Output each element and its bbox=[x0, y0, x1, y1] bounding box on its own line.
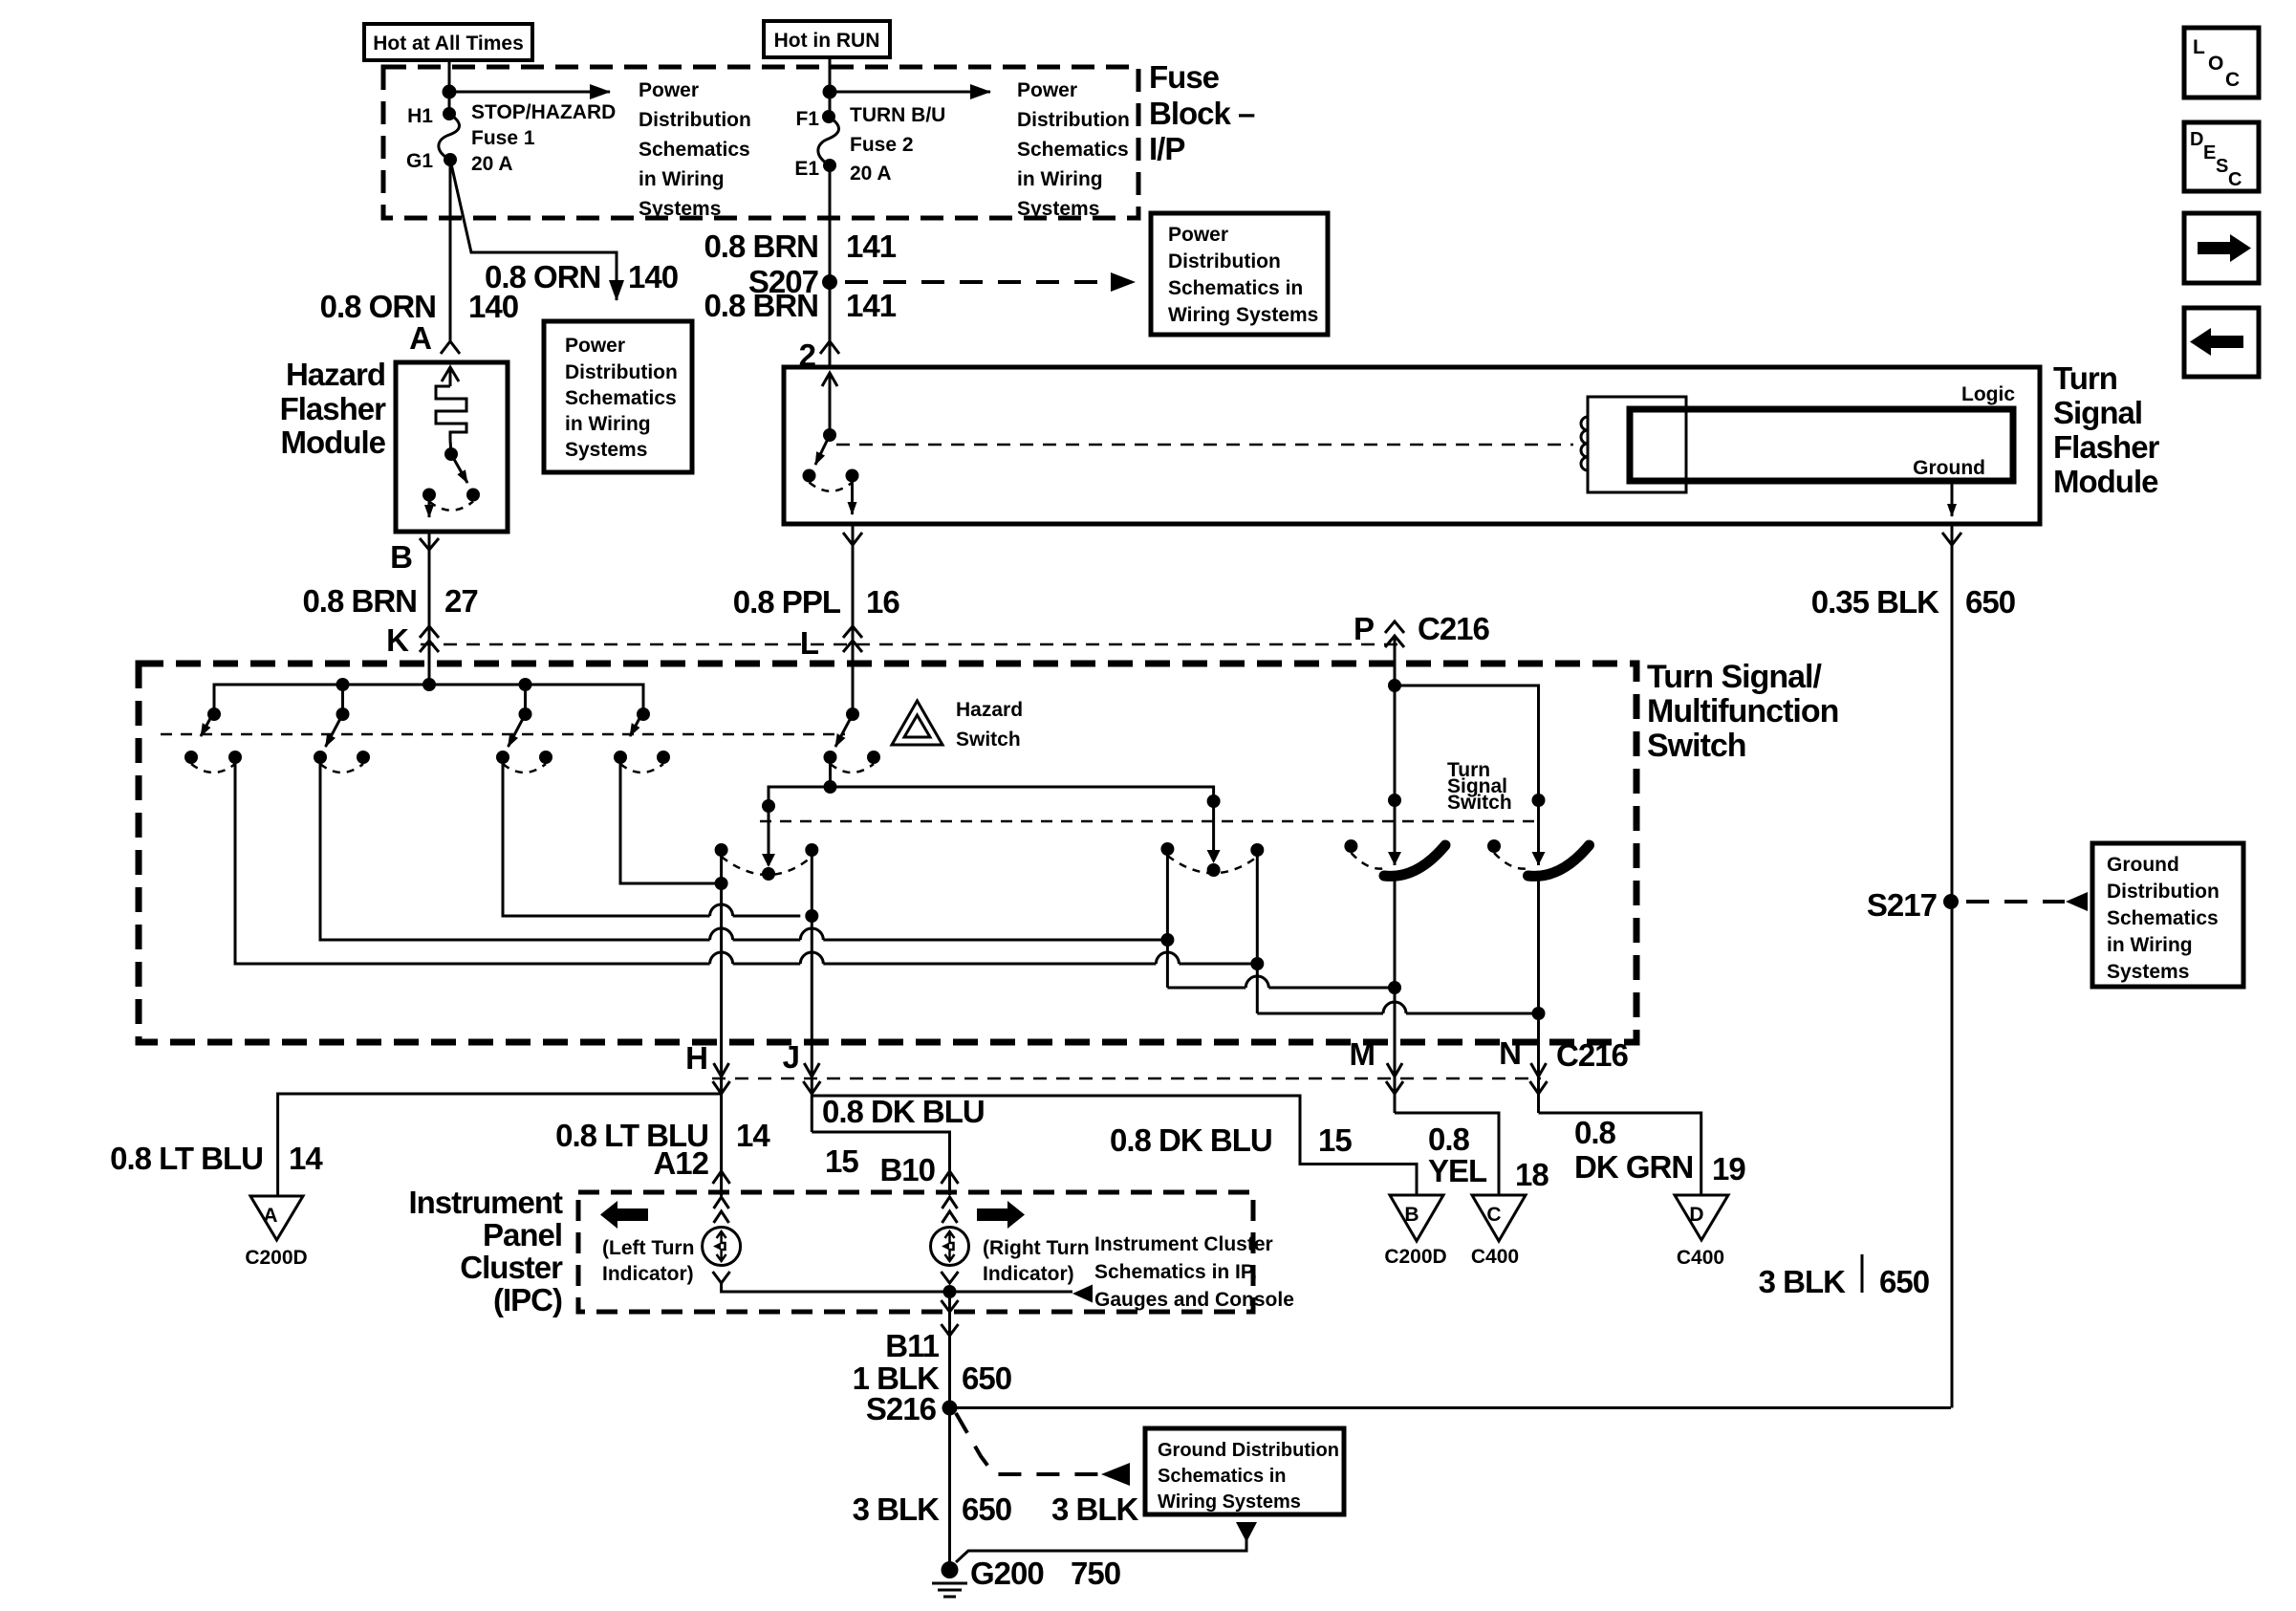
reference arrow to instrument cluster schematics bbox=[1072, 1285, 1093, 1303]
terminal F1 bbox=[822, 110, 835, 123]
M pole contact left bbox=[1344, 839, 1357, 853]
svg-text:F1: F1 bbox=[795, 108, 819, 130]
svg-text:J: J bbox=[783, 1039, 799, 1075]
svg-text:0.8 BRN: 0.8 BRN bbox=[704, 229, 818, 264]
svg-text:3 BLK: 3 BLK bbox=[853, 1491, 941, 1527]
wire label 0.8 ORN 140 (to module A) bbox=[320, 289, 518, 324]
wire J to B10 bbox=[812, 1132, 949, 1195]
TS common pole contact left bbox=[1160, 842, 1174, 856]
svg-text:Panel: Panel bbox=[483, 1217, 562, 1252]
wire label 0.8 ORN 140 (branch) bbox=[485, 259, 678, 294]
svg-text:Distribution: Distribution bbox=[565, 361, 678, 383]
svg-text:D: D bbox=[2190, 129, 2203, 150]
caret below right bulb bbox=[942, 1272, 959, 1283]
note Power Distribution Schematics in Wiring Systems (fuse2) bbox=[1017, 79, 1130, 220]
svg-text:Fuse 1: Fuse 1 bbox=[471, 127, 535, 149]
pole1 contact right bbox=[228, 751, 242, 764]
TS common pole terminal bbox=[1207, 795, 1221, 808]
svg-text:0.8 DK BLU: 0.8 DK BLU bbox=[822, 1094, 985, 1129]
svg-text:Fuse 2: Fuse 2 bbox=[850, 134, 914, 156]
feed pole contact right bbox=[867, 751, 880, 764]
svg-text:Ground Distribution: Ground Distribution bbox=[1158, 1440, 1339, 1461]
connector line C216 bottom dashed bbox=[712, 1078, 1541, 1080]
connector triangle D bbox=[1675, 1195, 1728, 1240]
feed pole contact left bbox=[824, 751, 837, 764]
svg-text:Schematics in: Schematics in bbox=[1168, 277, 1303, 299]
TS flasher logic block bbox=[1630, 409, 2013, 481]
svg-text:Flasher: Flasher bbox=[280, 391, 387, 426]
pole4 contact right bbox=[657, 751, 670, 764]
svg-text:0.8 PPL: 0.8 PPL bbox=[733, 584, 841, 620]
wire label 0.8 BRN 27 bbox=[302, 583, 477, 619]
svg-text:A: A bbox=[263, 1205, 277, 1227]
connector M double caret bbox=[1386, 1063, 1403, 1094]
svg-text:C216: C216 bbox=[1556, 1037, 1629, 1073]
junction pole4-to-H bbox=[715, 877, 728, 890]
svg-text:650: 650 bbox=[962, 1361, 1011, 1396]
pole1 contact left bbox=[184, 751, 198, 764]
svg-text:Gauges and Console: Gauges and Console bbox=[1094, 1289, 1294, 1311]
wire K into switch bbox=[428, 650, 431, 685]
svg-text:C400: C400 bbox=[1677, 1247, 1724, 1269]
wire feed-pole left contact down bbox=[829, 757, 832, 787]
svg-text:Systems: Systems bbox=[2107, 961, 2189, 983]
junction bulbs bus bbox=[943, 1285, 957, 1298]
svg-text:B11: B11 bbox=[885, 1328, 939, 1363]
label (Right Turn Indicator) bbox=[983, 1237, 1090, 1285]
hazard switch warning triangle icon bbox=[892, 701, 942, 745]
wire fuse2 to S207 bbox=[829, 165, 832, 367]
svg-text:S216: S216 bbox=[866, 1391, 937, 1426]
connector N double caret bbox=[1530, 1063, 1548, 1094]
wire N to connector D bbox=[1539, 1113, 1701, 1195]
icon box LOC bbox=[2184, 28, 2259, 98]
svg-text:O: O bbox=[2208, 53, 2223, 75]
svg-text:Cluster: Cluster bbox=[460, 1250, 563, 1285]
svg-text:0.8 DK BLU: 0.8 DK BLU bbox=[1110, 1122, 1272, 1158]
svg-text:Hazard: Hazard bbox=[286, 357, 385, 392]
connector triangle C bbox=[1472, 1195, 1526, 1241]
note box Power Distribution Schematics in Wiring Systems (right of S207) bbox=[1151, 213, 1328, 335]
svg-text:Wiring Systems: Wiring Systems bbox=[1158, 1491, 1301, 1513]
connector caret A bbox=[441, 341, 460, 354]
label Hazard Switch bbox=[956, 699, 1023, 751]
hazard flasher contact right bbox=[466, 489, 480, 502]
wire branch 0.8 ORN 140 to power dist note bbox=[450, 160, 617, 300]
wire TS flasher L output bbox=[852, 524, 855, 711]
label Turn Signal Flasher Module bbox=[2053, 360, 2160, 499]
pole4 contact arc bbox=[620, 764, 663, 773]
center pole contact left (H) bbox=[715, 843, 728, 857]
TS flasher coil frame bbox=[1588, 397, 1686, 492]
wire from Hot at All Times to fuse 1 bbox=[448, 60, 451, 114]
svg-text:C400: C400 bbox=[1471, 1246, 1519, 1268]
svg-text:C: C bbox=[2225, 69, 2240, 91]
svg-text:Module: Module bbox=[281, 425, 386, 460]
connector line C216 top dashed bbox=[421, 643, 1403, 646]
svg-text:15: 15 bbox=[825, 1143, 858, 1179]
wire S216 to right ground wire bbox=[950, 1406, 1952, 1409]
wire from Hot in RUN to fuse 2 bbox=[829, 57, 832, 117]
svg-text:C200D: C200D bbox=[245, 1247, 307, 1269]
connector P double caret bbox=[1385, 621, 1404, 647]
svg-text:DK GRN: DK GRN bbox=[1574, 1149, 1693, 1185]
N pole arm arrowhead bbox=[1532, 852, 1546, 865]
wire 0.8 LT BLU to connector A bbox=[278, 1094, 722, 1196]
svg-text:in Wiring: in Wiring bbox=[639, 168, 725, 190]
wire label 3 BLK 650 (right) bbox=[1759, 1254, 1929, 1299]
svg-text:Schematics in: Schematics in bbox=[1158, 1466, 1287, 1487]
wire label 0.8 YEL 18 bbox=[1428, 1121, 1549, 1192]
terminal G1 bbox=[444, 153, 457, 166]
svg-text:M: M bbox=[1350, 1036, 1375, 1072]
junction feed-to-center-bar bbox=[824, 780, 837, 794]
svg-text:Distribution: Distribution bbox=[2107, 881, 2220, 903]
connector carets into right bulb bbox=[942, 1197, 958, 1223]
hazard switch pole4 pivot bbox=[637, 708, 650, 721]
wire pole1 right contact to TS-right-vertical with hops bbox=[235, 757, 1257, 964]
pole2 contact left bbox=[314, 751, 327, 764]
label Turn Signal/ Multifunction Switch bbox=[1647, 659, 1838, 764]
svg-text:in Wiring: in Wiring bbox=[565, 413, 651, 435]
wire TS right vertical bbox=[1256, 850, 1259, 1013]
TS flasher ground output arrow bbox=[1951, 481, 1954, 516]
svg-text:C200D: C200D bbox=[1384, 1246, 1446, 1268]
svg-text:Distribution: Distribution bbox=[1017, 109, 1130, 131]
svg-text:E1: E1 bbox=[794, 158, 819, 180]
wire label 1 BLK 650 bbox=[853, 1361, 1011, 1396]
svg-text:Multifunction: Multifunction bbox=[1647, 693, 1838, 729]
node at fuse2 feed bbox=[823, 85, 837, 99]
TS common pole moving contact bbox=[1207, 863, 1221, 877]
pole3 contact left bbox=[496, 751, 509, 764]
junction bus-K bbox=[422, 678, 436, 691]
arrow to Power Distribution Schematics (right) bbox=[830, 91, 990, 94]
N pole thick contact swoosh bbox=[1528, 845, 1590, 876]
hazard switch pole3 pivot bbox=[519, 708, 532, 721]
feed pole contact arc bbox=[831, 764, 875, 773]
svg-text:A12: A12 bbox=[653, 1145, 708, 1181]
right turn arrow icon bbox=[977, 1201, 1025, 1229]
connector H double caret bbox=[713, 1063, 730, 1094]
pole3 arm arrow bbox=[509, 714, 526, 747]
wire TS left vertical bbox=[1166, 849, 1169, 988]
svg-text:H: H bbox=[685, 1040, 707, 1076]
pole4 contact left bbox=[614, 751, 627, 764]
svg-text:I/P: I/P bbox=[1149, 131, 1184, 166]
icon box DESC bbox=[2184, 122, 2259, 191]
svg-text:27: 27 bbox=[444, 583, 478, 619]
svg-text:Switch: Switch bbox=[1447, 792, 1512, 814]
junction pole3-to-J bbox=[805, 909, 818, 923]
wire M to connector C bbox=[1395, 1113, 1499, 1195]
svg-text:G1: G1 bbox=[406, 150, 433, 172]
left turn indicator bulb bbox=[703, 1228, 741, 1266]
svg-text:0.8 ORN: 0.8 ORN bbox=[320, 289, 436, 324]
svg-text:0.8: 0.8 bbox=[1574, 1115, 1616, 1150]
wire pole3 stub bbox=[524, 685, 527, 714]
TS flasher switch arm arrow bbox=[815, 435, 830, 465]
junction bus-pole3 bbox=[519, 678, 532, 691]
wire TS left vertical to M with hop bbox=[1167, 976, 1395, 988]
dashed reference arrow from S207 bbox=[845, 272, 1136, 292]
M pole arm arrowhead bbox=[1388, 852, 1401, 865]
svg-text:STOP/HAZARD: STOP/HAZARD bbox=[471, 101, 616, 123]
svg-text:Hazard: Hazard bbox=[956, 699, 1023, 721]
junction L3 to right vertical bbox=[1250, 957, 1264, 970]
svg-text:Wiring Systems: Wiring Systems bbox=[1168, 304, 1318, 326]
wire H vertical bbox=[720, 850, 723, 1196]
note box Ground Distribution Schematics (right) bbox=[2092, 843, 2243, 987]
svg-text:Instrument Cluster: Instrument Cluster bbox=[1094, 1233, 1273, 1255]
wire center distribution bar bbox=[769, 787, 1214, 865]
connector caret B bbox=[420, 538, 439, 550]
connector caret pin 2 bbox=[820, 341, 839, 354]
label Fuse Block - I/P bbox=[1149, 59, 1255, 166]
wire element to pivot bbox=[450, 440, 451, 454]
label box Hot at All Times bbox=[364, 24, 532, 60]
svg-text:Power: Power bbox=[1168, 224, 1228, 246]
pole4 arm arrow bbox=[630, 711, 643, 736]
svg-text:(IPC): (IPC) bbox=[493, 1282, 562, 1317]
svg-text:140: 140 bbox=[628, 259, 678, 294]
TS flasher relay coil bbox=[1581, 417, 1588, 470]
center pole contact right (J) bbox=[805, 843, 818, 857]
svg-text:Schematics in IP,: Schematics in IP, bbox=[1094, 1261, 1257, 1283]
TS flasher switch pivot bbox=[823, 428, 836, 442]
svg-text:Schematics: Schematics bbox=[565, 387, 677, 409]
value label TURN B/U Fuse 2 20 A bbox=[850, 104, 945, 185]
center pole arm arrowhead bbox=[762, 854, 775, 867]
svg-text:14: 14 bbox=[736, 1118, 770, 1153]
connector caret A12 bbox=[713, 1171, 730, 1184]
pole2 arm arrow bbox=[326, 714, 343, 747]
svg-text:Power: Power bbox=[1017, 79, 1077, 101]
svg-text:Power: Power bbox=[565, 335, 625, 357]
M pole thick contact swoosh bbox=[1384, 845, 1445, 876]
svg-text:YEL: YEL bbox=[1428, 1153, 1487, 1188]
svg-text:650: 650 bbox=[1879, 1264, 1929, 1299]
pole1 contact arc bbox=[191, 764, 235, 773]
wire M below swoosh bbox=[1394, 880, 1397, 1113]
TS flasher contact left bbox=[803, 469, 816, 483]
wire label 0.8 LT BLU 14 (center) bbox=[555, 1118, 770, 1153]
svg-text:Schematics: Schematics bbox=[2107, 907, 2219, 929]
svg-text:C216: C216 bbox=[1418, 611, 1490, 646]
svg-text:B: B bbox=[390, 539, 412, 575]
turn signal / multifunction switch dashed box bbox=[139, 664, 1636, 1042]
left turn arrow icon bbox=[600, 1201, 648, 1229]
wire S216 to G200 bbox=[948, 1408, 951, 1571]
TS flasher output arrow bbox=[851, 476, 854, 515]
svg-text:16: 16 bbox=[866, 584, 899, 620]
wire label 0.8 DK BLU 15 (right) bbox=[1110, 1122, 1352, 1158]
svg-text:Schematics: Schematics bbox=[1017, 139, 1129, 161]
wire pole2 stub bbox=[341, 685, 344, 714]
svg-text:0.8: 0.8 bbox=[1428, 1121, 1470, 1157]
M pole terminal bbox=[1388, 794, 1401, 807]
svg-text:S217: S217 bbox=[1867, 887, 1937, 923]
N pole contact left bbox=[1487, 839, 1501, 853]
svg-text:141: 141 bbox=[846, 288, 897, 323]
svg-text:Systems: Systems bbox=[1017, 198, 1099, 220]
fuse F1 STOP/HAZARD element bbox=[439, 114, 460, 160]
hazard switch bus wire bbox=[214, 685, 643, 714]
svg-text:Fuse: Fuse bbox=[1149, 59, 1220, 95]
splice S216 bbox=[942, 1401, 958, 1416]
connector caret B11 bbox=[942, 1324, 959, 1336]
hazard flasher module box bbox=[396, 362, 508, 532]
icon box left-arrow bbox=[2184, 308, 2259, 377]
junction L4 to M wire bbox=[1388, 981, 1401, 994]
connector caret ground out bbox=[1942, 533, 1961, 545]
svg-text:Ground: Ground bbox=[1913, 457, 1985, 479]
turn signal actuator dashed link bbox=[760, 820, 1539, 823]
svg-text:Systems: Systems bbox=[565, 439, 647, 461]
turn signal flasher module box bbox=[784, 367, 2040, 524]
fuse block I/P dashed box bbox=[383, 67, 1138, 218]
svg-text:140: 140 bbox=[468, 289, 518, 324]
svg-text:Turn Signal/: Turn Signal/ bbox=[1647, 659, 1822, 695]
pole2 contact arc bbox=[320, 764, 363, 773]
right turn indicator bulb bbox=[931, 1228, 969, 1266]
TS common pole contact arc bbox=[1167, 856, 1257, 873]
svg-text:Instrument: Instrument bbox=[408, 1185, 563, 1220]
svg-text:L: L bbox=[800, 625, 819, 661]
TS flasher internal input arrow bbox=[822, 373, 837, 435]
hazard switch feed pole pivot bbox=[846, 708, 859, 721]
svg-text:B: B bbox=[1404, 1204, 1419, 1226]
hazard switch actuator dashed link bbox=[161, 733, 845, 736]
connector J double caret bbox=[803, 1063, 820, 1094]
hazard flasher contact arc bbox=[429, 502, 473, 511]
svg-text:0.35 BLK: 0.35 BLK bbox=[1811, 584, 1939, 620]
svg-text:K: K bbox=[386, 622, 409, 658]
hazard flasher switch arm arrow bbox=[451, 454, 467, 483]
svg-text:Schematics: Schematics bbox=[639, 139, 750, 161]
fuse F2 TURN B/U element bbox=[818, 117, 839, 165]
svg-text:Turn: Turn bbox=[2053, 360, 2117, 396]
label Turn Signal Switch bbox=[1447, 759, 1512, 814]
svg-text:G200: G200 bbox=[970, 1556, 1044, 1591]
svg-text:0.8 LT BLU: 0.8 LT BLU bbox=[110, 1141, 263, 1176]
terminal H1 bbox=[443, 107, 456, 120]
wire P to N pole bbox=[1395, 686, 1539, 865]
svg-text:TURN B/U: TURN B/U bbox=[850, 104, 945, 126]
svg-text:20 A: 20 A bbox=[850, 163, 892, 185]
wire J vertical bbox=[811, 850, 813, 1132]
connector K double caret bbox=[420, 626, 439, 652]
wire TS right vertical to N with hop bbox=[1257, 1002, 1538, 1013]
svg-text:Distribution: Distribution bbox=[639, 109, 751, 131]
svg-text:C: C bbox=[2228, 169, 2242, 190]
splice S217 bbox=[1943, 894, 1959, 909]
wire label 0.8 DK GRN 19 bbox=[1574, 1115, 1745, 1186]
label Hazard Flasher Module bbox=[280, 357, 387, 460]
TS common pole arm arrowhead bbox=[1207, 850, 1221, 863]
connector carets into left bulb bbox=[714, 1197, 729, 1223]
svg-text:Flasher: Flasher bbox=[2053, 429, 2160, 465]
ground G200 bbox=[932, 1561, 967, 1597]
svg-text:18: 18 bbox=[1515, 1157, 1549, 1192]
svg-text:Logic: Logic bbox=[1961, 383, 2015, 405]
svg-text:Signal: Signal bbox=[2053, 395, 2142, 430]
center pole terminal bbox=[762, 799, 775, 813]
wire B11 out of IPC bbox=[948, 1292, 951, 1408]
dashed reference from S216 bbox=[956, 1413, 1130, 1486]
svg-text:0.8 BRN: 0.8 BRN bbox=[704, 288, 818, 323]
M pole contact arc bbox=[1351, 853, 1386, 869]
svg-text:Power: Power bbox=[639, 79, 699, 101]
caret B11 at IPC edge bbox=[942, 1300, 959, 1312]
svg-text:3 BLK: 3 BLK bbox=[1759, 1264, 1847, 1299]
svg-text:Switch: Switch bbox=[956, 729, 1021, 751]
svg-text:0.8 BRN: 0.8 BRN bbox=[302, 583, 417, 619]
connector triangle B bbox=[1390, 1195, 1443, 1241]
center pole moving contact bbox=[762, 867, 775, 881]
junction L2 to left vertical bbox=[1160, 933, 1174, 947]
center pole contact arc bbox=[722, 857, 812, 875]
svg-text:C: C bbox=[1486, 1204, 1501, 1226]
svg-text:15: 15 bbox=[1318, 1122, 1352, 1158]
TS flasher contact arc bbox=[810, 483, 853, 491]
wire N below swoosh bbox=[1537, 880, 1540, 1113]
wire label 0.8 PPL 16 bbox=[733, 584, 900, 620]
svg-text:S: S bbox=[2216, 156, 2228, 177]
svg-text:L: L bbox=[2193, 36, 2205, 58]
N pole contact arc bbox=[1494, 853, 1529, 869]
svg-text:Block –: Block – bbox=[1149, 96, 1255, 131]
wire 3 BLK 750 from ground distribution bbox=[956, 1522, 1257, 1562]
svg-text:Switch: Switch bbox=[1647, 728, 1746, 764]
dashed reference from S217 bbox=[1966, 892, 2088, 911]
wire fuse1 to hazard flasher module bbox=[449, 160, 452, 340]
svg-text:Hot in RUN: Hot in RUN bbox=[774, 30, 880, 52]
svg-text:Distribution: Distribution bbox=[1168, 250, 1281, 272]
wire P into switch bbox=[1394, 636, 1397, 865]
svg-text:3 BLK: 3 BLK bbox=[1051, 1491, 1139, 1527]
note box Ground Distribution Schematics (bottom) bbox=[1145, 1428, 1344, 1514]
connector L double caret bbox=[843, 626, 862, 652]
svg-text:N: N bbox=[1499, 1035, 1521, 1071]
junction L5 to N wire bbox=[1532, 1007, 1546, 1020]
svg-text:650: 650 bbox=[1965, 584, 2015, 620]
wire label 3 BLK 650 (left) bbox=[853, 1491, 1011, 1527]
svg-text:A: A bbox=[409, 320, 431, 356]
svg-text:Indicator): Indicator) bbox=[983, 1263, 1074, 1285]
wire label 0.35 BLK 650 bbox=[1811, 584, 2015, 620]
note Power Distribution Schematics in Wiring Systems (fuse1) bbox=[639, 79, 751, 220]
icon box right-arrow bbox=[2184, 213, 2259, 283]
wire module B out bbox=[428, 532, 431, 685]
svg-text:19: 19 bbox=[1712, 1151, 1745, 1186]
connector caret L out bbox=[843, 533, 862, 545]
svg-text:Hot at All Times: Hot at All Times bbox=[373, 33, 524, 54]
pole3 contact right bbox=[539, 751, 552, 764]
note box Power Distribution Schematics in Wiring Systems (left) bbox=[544, 321, 692, 472]
svg-text:(Right Turn: (Right Turn bbox=[983, 1237, 1090, 1259]
junction bus-pole2 bbox=[336, 678, 350, 691]
label Instrument Panel Cluster (IPC) bbox=[408, 1185, 563, 1317]
feed pole arm arrow bbox=[835, 714, 853, 747]
svg-text:141: 141 bbox=[846, 229, 897, 264]
caret below left bulb bbox=[713, 1272, 730, 1283]
wire pole3 left contact to J with hop bbox=[503, 757, 800, 916]
wire J branch to connector B bbox=[812, 1096, 1417, 1195]
svg-text:Module: Module bbox=[2053, 464, 2158, 499]
svg-text:650: 650 bbox=[962, 1491, 1011, 1527]
svg-text:14: 14 bbox=[289, 1141, 323, 1176]
